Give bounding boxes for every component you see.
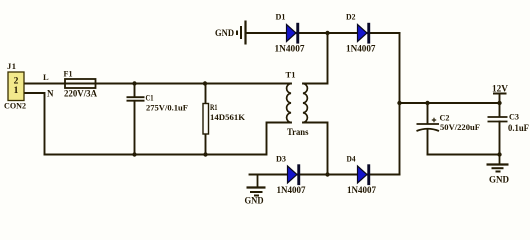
svg-text:C1: C1 <box>146 93 154 103</box>
svg-text:T1: T1 <box>286 70 296 80</box>
wire bottom diode row <box>250 174 400 176</box>
svg-text:D4: D4 <box>347 153 357 163</box>
svg-text:1N4007: 1N4007 <box>277 185 306 195</box>
node ground right junction <box>497 152 501 156</box>
diode D2 <box>358 23 371 44</box>
diode D4 <box>358 164 371 185</box>
transformer T1 primary winding <box>287 84 291 123</box>
svg-text:D3: D3 <box>276 153 286 163</box>
capacitor C1 <box>127 97 145 101</box>
wire N from J1 pin 1 down to bottom rail <box>24 93 45 155</box>
power port 12V bar <box>493 93 507 95</box>
svg-text:2: 2 <box>14 77 19 87</box>
diode D1 <box>287 23 300 44</box>
node C2 top junction <box>425 101 429 105</box>
svg-text:R1: R1 <box>210 102 218 112</box>
node D3-D4 junction <box>325 172 329 176</box>
svg-text:D2: D2 <box>346 12 356 22</box>
svg-text:L: L <box>43 72 49 82</box>
svg-text:CON2: CON2 <box>4 101 26 111</box>
node 12V junction <box>497 101 501 105</box>
wire R1 upper stub <box>205 84 207 104</box>
node D1-D2 junction <box>325 31 329 35</box>
connector J1 body <box>8 72 24 101</box>
wire C2 lower stub <box>427 130 429 155</box>
wire bottom right rail <box>428 154 500 156</box>
transformer T1 secondary winding <box>303 84 307 123</box>
svg-text:GND: GND <box>245 195 264 205</box>
svg-text:Trans: Trans <box>287 128 309 138</box>
wire C1 lower stub <box>134 101 136 155</box>
svg-text:C2: C2 <box>440 113 450 123</box>
svg-text:N: N <box>47 89 54 99</box>
plus mark of C2 <box>432 118 436 122</box>
ground symbol (sideways, top diode row) <box>237 21 246 45</box>
fuse F1 <box>65 79 96 88</box>
svg-text:1N4007: 1N4007 <box>347 185 376 195</box>
node R1 top junction <box>203 81 207 85</box>
wire bottom rail to T1 primary bottom <box>45 123 292 155</box>
svg-text:C3: C3 <box>509 112 519 122</box>
svg-text:D1: D1 <box>276 12 286 22</box>
ground symbol (bottom right, output) <box>487 155 509 172</box>
svg-text:1N4007: 1N4007 <box>275 44 306 54</box>
svg-text:50V/220uF: 50V/220uF <box>440 122 480 132</box>
svg-text:F1: F1 <box>64 69 73 79</box>
wire T1 secondary bottom to D3-D4 junction <box>303 123 328 175</box>
node rectifier output junction <box>397 101 401 105</box>
svg-text:275V/0.1uF: 275V/0.1uF <box>146 103 188 113</box>
svg-text:0.1uF: 0.1uF <box>508 123 529 133</box>
svg-text:12V: 12V <box>492 85 508 95</box>
wire L top rail from J1 pin 2 through F1 to T1 primary top <box>24 83 291 85</box>
node R1 bottom junction <box>203 152 207 156</box>
wire C1 upper stub <box>134 84 136 97</box>
ground symbol (bottom left, D3 anode) <box>247 175 266 196</box>
svg-text:220V/3A: 220V/3A <box>64 89 97 99</box>
wire C3 lower stub <box>499 122 501 155</box>
wire C2 upper stub <box>427 103 429 124</box>
wire C3 upper stub from 12V bar <box>499 94 501 117</box>
resistor R1 (varistor) <box>203 104 209 135</box>
svg-text:J1: J1 <box>7 61 16 71</box>
wire top diode row <box>246 32 400 34</box>
diode D3 <box>288 164 301 185</box>
node C1 bottom junction <box>132 152 136 156</box>
wire R1 lower stub <box>205 134 207 155</box>
svg-text:14D561K: 14D561K <box>210 112 245 122</box>
wire output to 12V <box>400 102 500 104</box>
wire right vertical joining D2 and D4 outputs <box>399 33 401 175</box>
capacitor C2 (polarized) <box>417 124 440 131</box>
wire T1 secondary top to D1-D2 junction <box>303 33 328 84</box>
node C1 top junction <box>132 81 136 85</box>
svg-text:1N4007: 1N4007 <box>346 44 376 54</box>
svg-text:1: 1 <box>14 86 19 96</box>
svg-text:GND: GND <box>489 175 510 185</box>
capacitor C3 <box>488 117 508 122</box>
svg-text:GND: GND <box>215 28 234 38</box>
